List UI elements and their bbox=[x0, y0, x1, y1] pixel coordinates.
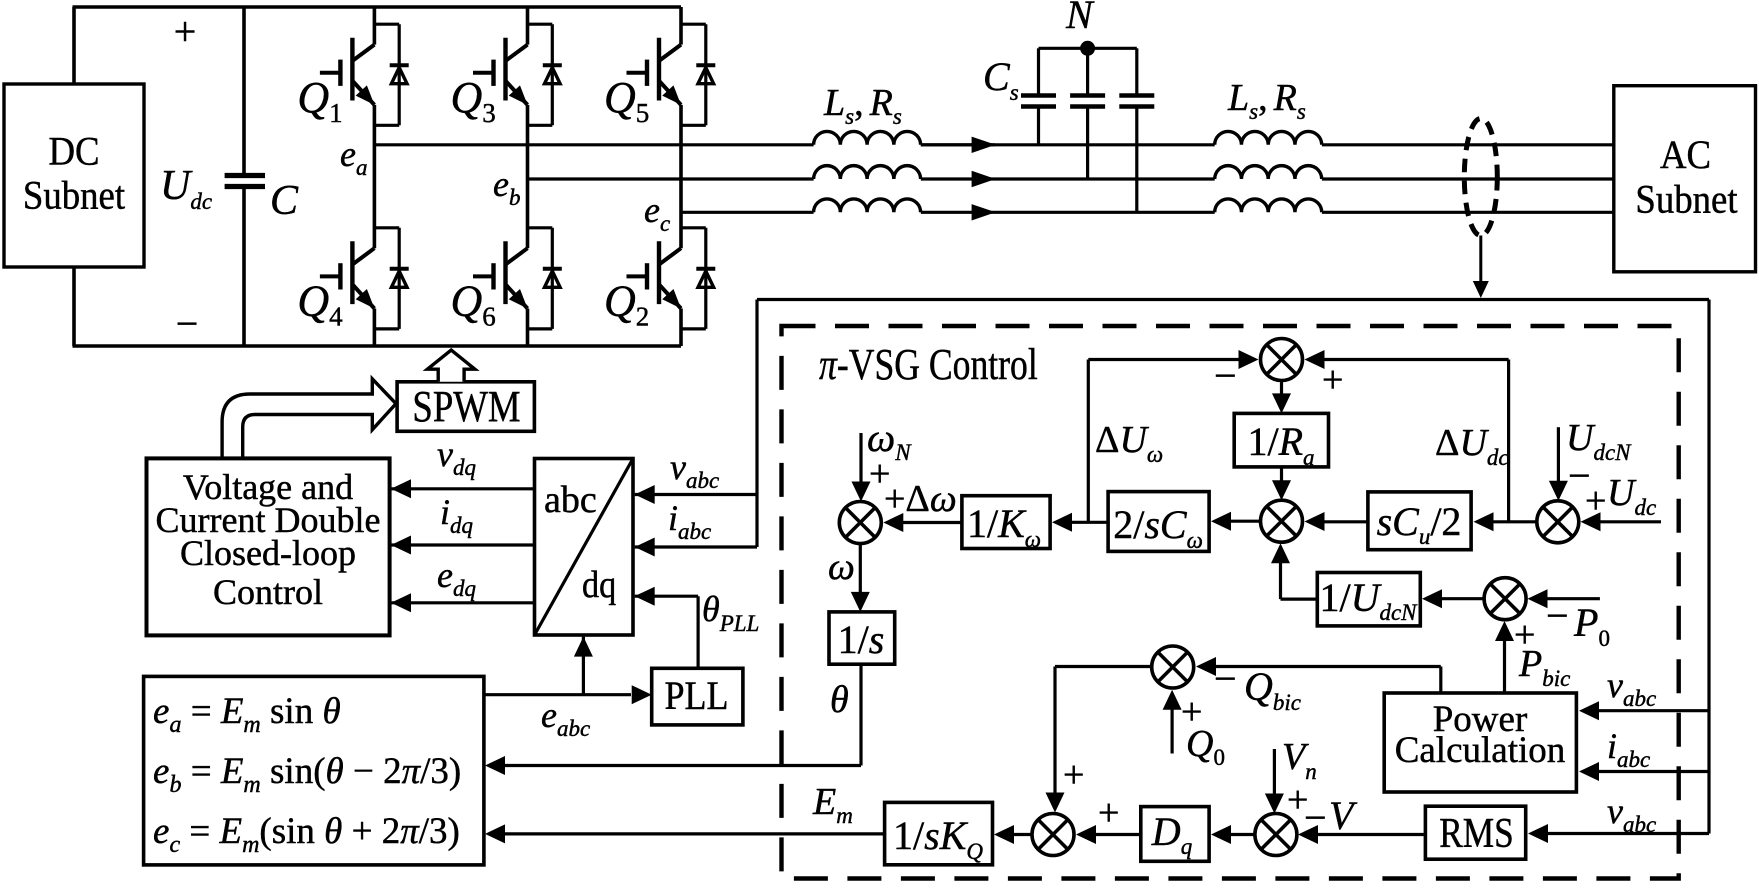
transistor Q3 bbox=[506, 45, 527, 61]
wire Q0 input bbox=[1170, 704, 1173, 754]
wire v_abc into abc/dq bbox=[635, 493, 757, 496]
wire phase A line bbox=[374, 143, 813, 146]
svg-text:Subnet: Subnet bbox=[23, 174, 126, 218]
wire Cs top bus bbox=[1039, 47, 1137, 50]
wire J6 to J7 bbox=[1055, 665, 1152, 668]
block 1/Ra bbox=[1234, 413, 1328, 467]
inductor Ls,Rs phase B (bank 2) bbox=[1215, 166, 1322, 179]
transistor Q1 bbox=[353, 45, 374, 61]
svg-text:1/s: 1/s bbox=[838, 617, 885, 662]
wire U_dcN input bbox=[1557, 427, 1560, 485]
wire phase leg C bbox=[679, 7, 683, 45]
diode (antiparallel of Q2) bbox=[681, 226, 706, 229]
summing junction J3 (omega) bbox=[839, 502, 881, 544]
summing junction J7 (Em integrator input) bbox=[1032, 814, 1074, 856]
capacitor Cs phase C bbox=[1135, 48, 1138, 95]
wire phase leg A bbox=[373, 7, 377, 45]
svg-text:ω: ω bbox=[828, 546, 855, 588]
wire theta (1/s to equations) bbox=[859, 664, 862, 765]
summing junction J4 (Udc comparison) bbox=[1537, 501, 1579, 543]
svg-text:+Δω: +Δω bbox=[884, 478, 957, 520]
wire P0 input bbox=[1542, 597, 1600, 600]
arrow phase A direction bbox=[921, 143, 995, 146]
capacitor Cs phase A bbox=[1037, 48, 1040, 95]
transistor Q5 bbox=[660, 45, 681, 61]
svg-text:AC: AC bbox=[1660, 134, 1711, 178]
transistor Q2 bbox=[660, 248, 681, 264]
arrow phase B direction bbox=[972, 171, 996, 187]
wire phase C line bbox=[681, 211, 814, 214]
wire E_m (1/sKQ to equations) bbox=[500, 832, 885, 835]
wire J5 to 1/U_dcN bbox=[1437, 597, 1484, 600]
svg-text:C: C bbox=[270, 178, 299, 224]
svg-text:Subnet: Subnet bbox=[1635, 178, 1738, 222]
svg-text:+: + bbox=[174, 9, 197, 54]
svg-text:−: − bbox=[176, 301, 199, 346]
wire J7 to 1/sKQ bbox=[1008, 833, 1032, 836]
AC Subnet box bbox=[1614, 86, 1756, 272]
summing junction J1 (voltage error) bbox=[1261, 339, 1303, 381]
summing junction J6 (Q_bic) bbox=[1152, 646, 1194, 688]
hollow arrow SPWM to inverter bbox=[427, 350, 475, 382]
wire Q_bic (Power Calc to J6) bbox=[1439, 667, 1442, 694]
block 1/sKQ bbox=[885, 802, 993, 864]
inductor Ls,Rs phase C (bank 1) bbox=[814, 199, 921, 212]
block 2/sC_omega bbox=[1108, 492, 1209, 552]
svg-text:N: N bbox=[1065, 0, 1095, 37]
block equations e_abc bbox=[144, 676, 484, 865]
DC top bus wire bbox=[73, 5, 682, 9]
svg-text:ec = Em(sin θ + 2π/3): ec = Em(sin θ + 2π/3) bbox=[153, 811, 460, 858]
wire Delta-U-omega feedback bbox=[1087, 360, 1090, 523]
wire Delta-U-dc feed bbox=[1507, 360, 1510, 522]
wire omega_N input bbox=[859, 433, 862, 487]
svg-text:−: − bbox=[1546, 593, 1569, 638]
wire v_abc into RMS bbox=[1543, 832, 1709, 835]
wire J4 to sCu/2 bbox=[1489, 520, 1537, 523]
wire left DC vertical bbox=[72, 7, 76, 84]
wire theta_PLL (PLL to abc/dq) bbox=[696, 596, 699, 668]
wire RMS to J8 bbox=[1313, 833, 1425, 836]
wire Dq to J7 bbox=[1092, 833, 1141, 836]
svg-text:+: + bbox=[1585, 480, 1606, 522]
wire omega (J3 to 1/s) bbox=[859, 544, 862, 597]
wire measurement left feed bbox=[755, 300, 758, 548]
wire 2/sC_omega to 1/K_omega bbox=[1068, 521, 1108, 524]
diode (antiparallel of Q4) bbox=[374, 226, 399, 229]
svg-text:+: + bbox=[1322, 359, 1343, 401]
block Voltage and Current Double Closed-loop Control bbox=[147, 458, 390, 635]
wire phase B line bbox=[528, 177, 814, 180]
svg-text:+: + bbox=[869, 453, 890, 495]
block 1/K_omega bbox=[962, 496, 1050, 549]
svg-text:abc: abc bbox=[544, 479, 597, 521]
svg-text:Ls,Rs: Ls,Rs bbox=[1227, 77, 1306, 124]
svg-text:+: + bbox=[1063, 754, 1084, 796]
block 1/U_dcN bbox=[1317, 573, 1420, 626]
svg-text:eb = Em sin(θ − 2π/3): eb = Em sin(θ − 2π/3) bbox=[153, 751, 461, 798]
wire J8 to Dq bbox=[1226, 833, 1255, 836]
block RMS bbox=[1425, 806, 1525, 859]
svg-text:RMS: RMS bbox=[1439, 810, 1513, 857]
capacitor Cs phase B bbox=[1086, 48, 1089, 95]
diode (antiparallel of Q6) bbox=[528, 226, 553, 229]
block 1/s bbox=[829, 612, 895, 664]
summing junction J2 (capacitor current) bbox=[1261, 500, 1303, 542]
wire U_dc input bbox=[1595, 520, 1661, 523]
wire measurement right feed bbox=[1707, 300, 1710, 834]
SPWM box bbox=[397, 382, 534, 432]
wire J2 to 2/sC_omega bbox=[1227, 520, 1261, 523]
svg-text:Closed-loop: Closed-loop bbox=[180, 533, 356, 573]
transistor Q6 bbox=[506, 248, 527, 264]
coupling ellipse measurement point bbox=[1464, 119, 1497, 236]
wire e_dq bbox=[391, 601, 535, 604]
wire v_dq bbox=[391, 487, 535, 490]
diode (antiparallel of Q3) bbox=[528, 23, 553, 26]
diode (antiparallel of Q5) bbox=[681, 23, 706, 26]
diode (antiparallel of Q1) bbox=[374, 23, 399, 26]
wire i_abc into abc/dq bbox=[635, 545, 757, 548]
svg-text:PLL: PLL bbox=[664, 674, 728, 718]
dashed box pi-VSG Control bbox=[782, 326, 1679, 879]
transistor Q4 bbox=[353, 248, 374, 264]
hollow arrow control to SPWM bbox=[222, 379, 396, 458]
wire J1 to 1/Ra bbox=[1280, 381, 1283, 399]
summing junction J8 (V comparison) bbox=[1255, 814, 1297, 856]
inductor Ls,Rs phase A (bank 2) bbox=[1215, 131, 1322, 144]
wire 1/K_omega to J3 bbox=[899, 521, 962, 524]
arrow phase C direction bbox=[972, 204, 996, 220]
wire e_abc (equations to PLL) bbox=[484, 693, 631, 696]
capacitor C bbox=[242, 7, 246, 176]
block Dq bbox=[1141, 807, 1209, 862]
summing junction J5 (P0) bbox=[1484, 578, 1526, 620]
svg-text:−: − bbox=[1214, 656, 1237, 701]
svg-text:Calculation: Calculation bbox=[1395, 730, 1566, 771]
block PLL bbox=[652, 668, 743, 725]
block sCu/2 bbox=[1368, 492, 1471, 550]
wire 1/Ra to J2 bbox=[1280, 467, 1283, 485]
arrow measurement to control bbox=[1479, 236, 1482, 283]
block Power Calculation bbox=[1384, 693, 1576, 792]
wire i_dq bbox=[391, 543, 535, 546]
svg-text:π-VSG Control: π-VSG Control bbox=[819, 339, 1038, 388]
svg-text:DC: DC bbox=[48, 130, 99, 174]
wire phase leg B bbox=[526, 7, 530, 45]
inductor Ls,Rs phase A (bank 1) bbox=[814, 131, 921, 144]
node N dot bbox=[1080, 41, 1095, 56]
inductor Ls,Rs phase C (bank 2) bbox=[1215, 199, 1322, 212]
wire 1/U_dcN to J2 bbox=[1281, 597, 1318, 600]
wire measurement top feed bbox=[757, 298, 1709, 301]
wire v_abc into Power Calculation bbox=[1594, 709, 1709, 712]
svg-text:Control: Control bbox=[213, 572, 323, 612]
DC bottom bus wire bbox=[73, 344, 682, 348]
block abc/dq transform bbox=[535, 459, 634, 636]
wire P_bic (Power Calc to J5) bbox=[1503, 635, 1506, 693]
DC Subnet box bbox=[4, 84, 144, 267]
wire Vn input bbox=[1273, 749, 1276, 799]
svg-text:θ: θ bbox=[830, 679, 849, 721]
svg-text:Ls,Rs: Ls,Rs bbox=[823, 82, 902, 129]
svg-text:+: + bbox=[1098, 792, 1119, 834]
wire sCu/2 to J2 bbox=[1321, 520, 1368, 523]
svg-text:SPWM: SPWM bbox=[412, 382, 520, 431]
svg-text:dq: dq bbox=[582, 563, 616, 605]
wire i_abc into Power Calculation bbox=[1594, 770, 1709, 773]
inductor Ls,Rs phase B (bank 1) bbox=[814, 166, 921, 179]
wire e_abc branch to abc/dq bbox=[582, 637, 585, 695]
